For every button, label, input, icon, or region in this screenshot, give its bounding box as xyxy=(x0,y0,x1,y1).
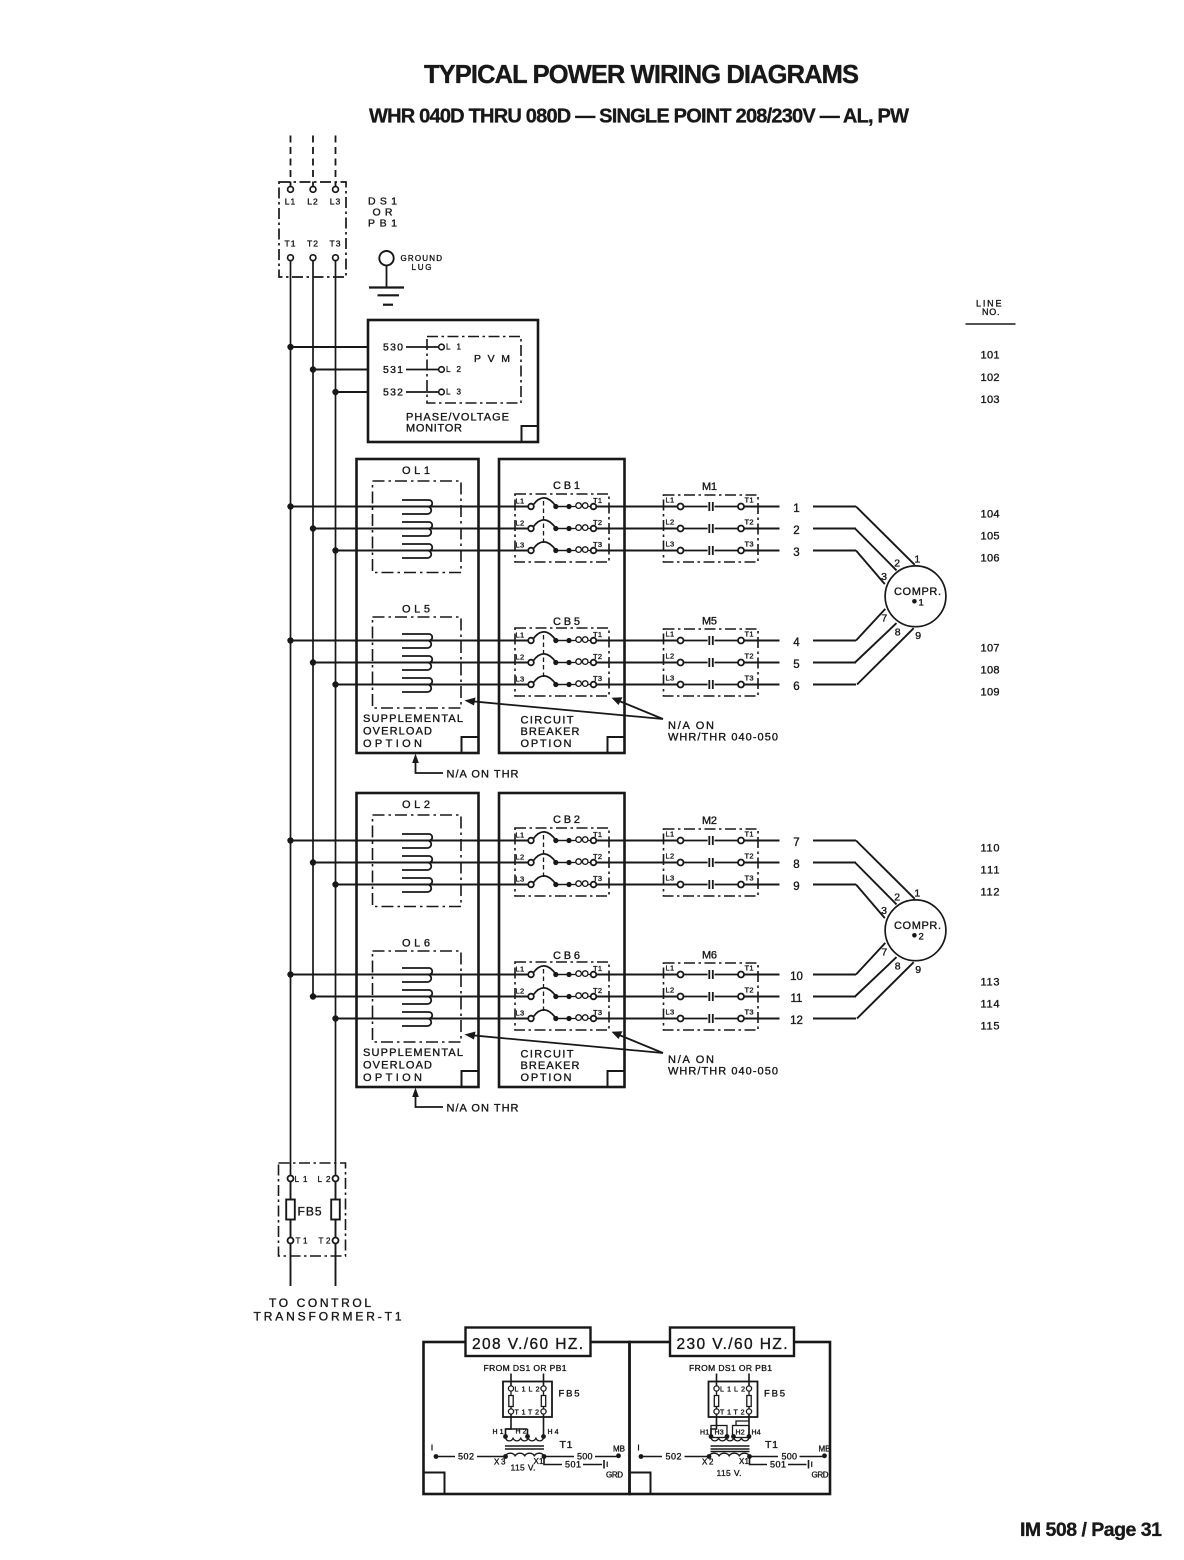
breaker pole terminal T3 xyxy=(591,882,597,888)
wire row 4 to compressor bend xyxy=(813,640,856,642)
svg-text:L3: L3 xyxy=(516,875,525,884)
svg-text:L3: L3 xyxy=(666,674,675,683)
transformer primary terminal dots xyxy=(709,1434,714,1439)
H3 link box xyxy=(711,1426,727,1438)
circuit breaker CB1 box xyxy=(515,494,609,562)
svg-text:T1: T1 xyxy=(745,630,754,639)
contactor pole wire L2 xyxy=(684,996,708,998)
svg-text:9: 9 xyxy=(915,964,921,976)
svg-text:9: 9 xyxy=(915,630,921,642)
svg-text:N/A ON: N/A ON xyxy=(668,1054,714,1066)
svg-text:3: 3 xyxy=(881,905,887,917)
FB5 detail fuse 2 xyxy=(543,1391,545,1395)
wire diagonal 5 to compressor xyxy=(855,623,897,662)
svg-text:L1: L1 xyxy=(295,1175,309,1184)
transformer secondary winding xyxy=(709,1453,750,1456)
svg-text:104: 104 xyxy=(981,509,1000,521)
wire from PB1 to FB5 L2 xyxy=(543,1374,545,1386)
breaker pole contacts and coil L1-T1 xyxy=(553,972,558,977)
overload option notch xyxy=(462,737,479,753)
svg-text:L3: L3 xyxy=(666,540,675,549)
wire from PB1 to FB5 L2 xyxy=(748,1374,750,1386)
svg-text:CB2: CB2 xyxy=(553,814,580,826)
svg-text:T3: T3 xyxy=(745,674,754,683)
wire bus to PVM L3 xyxy=(336,391,369,393)
svg-text:NO.: NO. xyxy=(982,307,1000,317)
wire diagonal 12 to compressor xyxy=(857,962,914,1018)
breaker CB5 trip linkage dashed xyxy=(543,635,545,679)
wire row 3 bus to breaker xyxy=(336,550,529,552)
FB5 detail terminal L1 xyxy=(714,1386,719,1391)
contactor NO contact L2-T2 xyxy=(708,858,710,867)
junction dot row 12 xyxy=(332,1015,338,1021)
contactor pole terminal L2 xyxy=(678,526,684,532)
230V box corner notch xyxy=(630,1473,651,1494)
svg-text:N/A ON: N/A ON xyxy=(668,720,714,732)
breaker contact blade L3 xyxy=(534,876,556,884)
svg-text:TYPICAL POWER WIRING DIAGRAMS: TYPICAL POWER WIRING DIAGRAMS xyxy=(424,61,859,89)
disconnect DS1/PB1 box xyxy=(279,182,346,277)
wire 531 to PVM terminal xyxy=(406,369,439,371)
wire row 11 to compressor bend xyxy=(813,996,856,998)
svg-text:T2: T2 xyxy=(745,652,754,661)
svg-text:OVERLOAD: OVERLOAD xyxy=(363,1060,432,1072)
svg-text:T3: T3 xyxy=(745,874,754,883)
breaker CB2 trip linkage dashed xyxy=(543,835,545,879)
branch 501 to ground (230V) xyxy=(750,1457,768,1465)
contactor pole terminal L3 xyxy=(678,882,684,888)
svg-text:M2: M2 xyxy=(702,815,717,827)
junction dot row 9 xyxy=(332,881,338,887)
PVM terminal L1 xyxy=(439,344,445,350)
svg-text:L1: L1 xyxy=(516,831,525,840)
junction dot row 1 xyxy=(287,503,293,509)
wire T1 into H3 link xyxy=(716,1421,718,1426)
FB5 detail fuse 1 xyxy=(510,1391,512,1395)
wire diagonal 1 to compressor xyxy=(856,507,915,565)
heater element OL2 xyxy=(402,878,432,885)
wire from DS1 to FB5 L1 xyxy=(510,1374,512,1386)
breaker contact blade L3 xyxy=(534,1010,556,1018)
wire row 1 breaker to contactor xyxy=(596,506,677,508)
terminal T1 of DS1 xyxy=(288,255,294,261)
wire row 8 to compressor bend xyxy=(813,862,856,864)
svg-text:L3: L3 xyxy=(666,1008,675,1017)
FB5 detail fuse 1 xyxy=(716,1391,718,1395)
breaker CB6 trip linkage dashed xyxy=(543,969,545,1013)
contactor NO contact L1-T1 xyxy=(708,836,710,845)
terminal L3 of DS1 xyxy=(333,187,339,193)
wire row 7 breaker to contactor xyxy=(596,840,677,842)
svg-text:FB5: FB5 xyxy=(559,1389,580,1400)
FB5 detail terminal L2 xyxy=(541,1386,546,1391)
svg-text:CB1: CB1 xyxy=(553,480,580,492)
contactor pole wire T2 xyxy=(715,528,739,530)
bus L1 vertical wire xyxy=(290,261,292,1176)
wire row 2 bus to breaker xyxy=(313,528,528,530)
svg-text:FROM DS1 OR PB1: FROM DS1 OR PB1 xyxy=(689,1363,772,1373)
svg-text:T1: T1 xyxy=(296,1237,309,1246)
svg-text:532: 532 xyxy=(383,387,403,399)
bus L2 vertical wire xyxy=(312,261,314,997)
svg-text:H1: H1 xyxy=(700,1430,709,1437)
breaker contact blade L1 xyxy=(534,832,556,840)
wire diagonal 10 to compressor xyxy=(856,943,885,975)
contactor pole terminal L1 xyxy=(678,504,684,510)
svg-text:GRD: GRD xyxy=(812,1471,829,1480)
contactor pole terminal T3 xyxy=(738,682,744,688)
secondary circuit left end tick xyxy=(431,1445,433,1451)
circuit breaker CB2 box xyxy=(515,828,609,896)
breaker pole terminal L3 xyxy=(528,882,534,888)
svg-text:T3: T3 xyxy=(593,874,602,883)
circuit breaker CB5 box xyxy=(515,628,609,696)
wire H2 tap xyxy=(527,1429,529,1435)
tab 208 V./60 HZ. xyxy=(466,1328,591,1357)
svg-text:L1: L1 xyxy=(285,197,296,207)
secondary terminal dot X1 xyxy=(747,1454,752,1459)
wire row 6 breaker to contactor xyxy=(596,684,677,686)
svg-text:T2: T2 xyxy=(528,1410,539,1417)
svg-text:IM 508 / Page 31: IM 508 / Page 31 xyxy=(1020,1519,1162,1541)
svg-text:CIRCUIT: CIRCUIT xyxy=(521,1049,574,1061)
contactor NO contact L1-T1 xyxy=(708,502,710,511)
contactor pole wire L3 xyxy=(684,884,708,886)
heater element OL5 xyxy=(402,678,432,685)
svg-text:108: 108 xyxy=(981,665,1000,677)
svg-text:M6: M6 xyxy=(702,950,717,962)
svg-text:T1: T1 xyxy=(593,496,602,505)
contactor pole wire T2 xyxy=(715,862,739,864)
breaker pole terminal T2 xyxy=(591,860,597,866)
svg-text:8: 8 xyxy=(895,626,901,638)
junction dot bus L1 PVM tap xyxy=(287,344,293,350)
wire row 5 bus to breaker xyxy=(313,662,528,664)
wire row 3 contactor to number xyxy=(744,550,780,552)
junction dot row 10 xyxy=(287,971,293,977)
transformer secondary winding xyxy=(506,1453,545,1456)
contactor pole terminal L3 xyxy=(678,548,684,554)
svg-text:L3: L3 xyxy=(330,197,341,207)
phase/voltage monitor box xyxy=(368,320,538,442)
svg-text:L1: L1 xyxy=(666,830,675,839)
breaker pole contacts and coil L3-T3 xyxy=(553,682,558,687)
wire row 9 contactor to number xyxy=(744,884,780,886)
svg-text:115 V.: 115 V. xyxy=(511,1463,536,1473)
contactor pole wire L2 xyxy=(684,662,708,664)
svg-text:530: 530 xyxy=(383,342,403,354)
contactor pole terminal L2 xyxy=(678,994,684,1000)
wire T2 into H2 link xyxy=(736,1421,749,1426)
wire row 5 to compressor bend xyxy=(813,662,856,664)
overload relay OL2 box xyxy=(373,815,462,907)
svg-text:111: 111 xyxy=(981,865,1000,877)
contactor NO contact L1-T1 xyxy=(708,636,710,645)
svg-text:T2: T2 xyxy=(745,852,754,861)
contactor NO contact L2-T2 xyxy=(708,524,710,533)
svg-text:OPTION: OPTION xyxy=(363,738,422,750)
breaker pole contacts and coil L3-T3 xyxy=(553,548,558,553)
svg-text:9: 9 xyxy=(793,881,799,893)
svg-text:106: 106 xyxy=(981,553,1000,565)
compressor #2 circle xyxy=(885,900,946,961)
svg-text:L2: L2 xyxy=(446,365,462,374)
breaker pole terminal T3 xyxy=(591,682,597,688)
contactor NO contact L3-T3 xyxy=(708,680,710,689)
wire T1 to transformer primary xyxy=(506,1414,512,1434)
svg-text:113: 113 xyxy=(981,977,1000,989)
svg-text:T1: T1 xyxy=(745,496,754,505)
svg-text:L2: L2 xyxy=(307,197,318,207)
wire row 12 breaker to contactor xyxy=(596,1018,677,1020)
circuit breaker CB6 box xyxy=(515,962,609,1030)
breaker contact blade L2 xyxy=(534,854,556,862)
terminal L1 of DS1 xyxy=(288,187,294,193)
detail box 208V xyxy=(424,1342,630,1494)
breaker pole terminal L1 xyxy=(528,504,534,510)
PVM terminal L2 xyxy=(439,367,445,373)
breaker pole terminal L2 xyxy=(528,860,534,866)
wire row 10 contactor to number xyxy=(744,974,780,976)
contactor pole wire L2 xyxy=(684,528,708,530)
svg-text:T1: T1 xyxy=(593,964,602,973)
secondary terminal dot X-left xyxy=(707,1454,712,1459)
svg-text:T2: T2 xyxy=(593,652,602,661)
secondary wire left with label 502 xyxy=(434,1454,439,1459)
wire diagonal 3 to compressor xyxy=(856,551,885,585)
svg-text:T1: T1 xyxy=(745,830,754,839)
fuse F1 of FB5 xyxy=(290,1182,292,1200)
svg-text:L1: L1 xyxy=(446,343,462,352)
svg-text:7: 7 xyxy=(881,613,887,625)
svg-text:COMPR.: COMPR. xyxy=(894,586,941,598)
svg-text:12: 12 xyxy=(790,1015,803,1027)
wire row 7 to compressor bend xyxy=(813,840,856,842)
svg-text:FROM DS1 OR PB1: FROM DS1 OR PB1 xyxy=(484,1363,567,1373)
heater element OL1 xyxy=(402,522,432,529)
wire from DS1 to FB5 L1 xyxy=(716,1374,718,1386)
svg-text:T2: T2 xyxy=(593,518,602,527)
svg-text:X1: X1 xyxy=(739,1457,750,1466)
wire row 4 breaker to contactor xyxy=(596,640,677,642)
wire row 1 bus to breaker xyxy=(291,506,529,508)
breaker pole terminal T2 xyxy=(591,526,597,532)
junction dot row 5 xyxy=(310,659,316,665)
wire row 1 to compressor bend xyxy=(813,506,856,508)
breaker option notch xyxy=(608,1071,625,1087)
junction dot row 4 xyxy=(287,637,293,643)
breaker pole terminal T1 xyxy=(591,638,597,644)
svg-text:L1: L1 xyxy=(516,965,525,974)
contactor pole terminal T1 xyxy=(738,638,744,644)
svg-text:501: 501 xyxy=(770,1460,786,1470)
contactor pole terminal L2 xyxy=(678,660,684,666)
breaker pole terminal T1 xyxy=(591,504,597,510)
wire row 2 breaker to contactor xyxy=(596,528,677,530)
contactor pole wire T3 xyxy=(715,884,739,886)
svg-text:OL1: OL1 xyxy=(402,465,430,477)
overload relay OL1 box xyxy=(373,481,462,573)
svg-text:T2: T2 xyxy=(593,852,602,861)
svg-text:T1: T1 xyxy=(745,964,754,973)
svg-text:L2: L2 xyxy=(666,518,675,527)
breaker pole contacts and coil L2-T2 xyxy=(553,860,558,865)
heater element OL1 xyxy=(402,544,432,551)
svg-text:531: 531 xyxy=(383,364,403,376)
wire diagonal 8 to compressor xyxy=(855,863,897,905)
PVM box option notch xyxy=(522,426,539,442)
wire diagonal 11 to compressor xyxy=(855,957,897,996)
contactor pole wire T2 xyxy=(715,996,739,998)
svg-text:L1: L1 xyxy=(666,630,675,639)
svg-text:GROUND: GROUND xyxy=(401,254,443,263)
svg-text:T1: T1 xyxy=(285,239,297,249)
svg-text:T2: T2 xyxy=(734,1410,745,1417)
breaker contact blade L3 xyxy=(534,676,556,684)
contactor pole terminal L1 xyxy=(678,838,684,844)
FB5 detail terminal L1 xyxy=(508,1386,513,1391)
secondary terminal dot X-left xyxy=(503,1454,508,1459)
svg-text:OL2: OL2 xyxy=(402,799,430,811)
svg-text:SUPPLEMENTAL: SUPPLEMENTAL xyxy=(363,713,463,725)
contactor M6 box xyxy=(664,963,759,1030)
breaker pole terminal L2 xyxy=(528,994,534,1000)
wire row 6 bus to breaker xyxy=(336,684,529,686)
svg-text:2: 2 xyxy=(919,932,924,943)
svg-text:N/A ON THR: N/A ON THR xyxy=(447,1103,519,1115)
contactor pole wire T1 xyxy=(715,974,739,976)
svg-text:L3: L3 xyxy=(666,874,675,883)
svg-text:3: 3 xyxy=(881,571,887,583)
breaker pole contacts and coil L2-T2 xyxy=(553,994,558,999)
svg-text:T1: T1 xyxy=(720,1410,731,1417)
terminal T2 of DS1 xyxy=(310,255,316,261)
contactor pole terminal T2 xyxy=(738,526,744,532)
contactor pole wire T3 xyxy=(715,1018,739,1020)
svg-text:M5: M5 xyxy=(702,616,717,628)
contactor NO contact L2-T2 xyxy=(708,992,710,1001)
heater element OL6 xyxy=(402,968,432,975)
contactor NO contact L3-T3 xyxy=(708,880,710,889)
FB5 detail fuse 2 xyxy=(748,1391,750,1395)
breaker option notch xyxy=(608,737,625,753)
contactor NO contact L1-T1 xyxy=(708,970,710,979)
junction dot row 2 xyxy=(310,525,316,531)
svg-text:T3: T3 xyxy=(330,239,342,249)
svg-text:T2: T2 xyxy=(745,986,754,995)
breaker pole contacts and coil L3-T3 xyxy=(553,1016,558,1021)
PVM terminal L3 xyxy=(439,389,445,395)
overload relay OL5 box xyxy=(373,617,462,708)
wire diagonal 7 to compressor xyxy=(856,841,915,899)
line no header underline xyxy=(966,323,1016,325)
svg-text:115 V.: 115 V. xyxy=(717,1468,742,1478)
svg-text:L2: L2 xyxy=(516,987,525,996)
svg-text:501: 501 xyxy=(565,1460,581,1470)
breaker contact blade L2 xyxy=(534,988,556,996)
wire row 6 to compressor bend xyxy=(813,684,856,686)
incoming supply dashed line L2 xyxy=(312,136,314,187)
svg-text:11: 11 xyxy=(791,993,803,1005)
breaker pole contacts and coil L1-T1 xyxy=(553,838,558,843)
breaker pole terminal T1 xyxy=(591,972,597,978)
svg-text:MB: MB xyxy=(613,1445,625,1454)
contactor pole terminal T1 xyxy=(738,972,744,978)
svg-text:L2: L2 xyxy=(318,1175,332,1184)
wire bus to PVM L1 xyxy=(291,346,369,348)
svg-text:101: 101 xyxy=(981,350,1000,362)
junction dot row 6 xyxy=(332,681,338,687)
wire row 8 bus to breaker xyxy=(313,862,528,864)
terminal dot MB xyxy=(616,1453,621,1458)
wire diagonal 4 to compressor xyxy=(856,609,885,641)
contactor pole wire T1 xyxy=(715,506,739,508)
svg-text:COMPR.: COMPR. xyxy=(894,920,941,932)
svg-text:PB1: PB1 xyxy=(368,218,397,230)
wire row 5 breaker to contactor xyxy=(596,662,677,664)
svg-text:4: 4 xyxy=(793,637,800,649)
contactor NO contact L3-T3 xyxy=(708,1014,710,1023)
FB5 terminal L2 xyxy=(333,1176,339,1182)
transformer primary terminal dots xyxy=(503,1434,508,1439)
terminal dot MB (230V) xyxy=(822,1453,827,1458)
secondary circuit left end tick (230V) xyxy=(638,1445,640,1451)
svg-text:230 V./60 HZ.: 230 V./60 HZ. xyxy=(677,1336,788,1353)
contactor pole wire T3 xyxy=(715,684,739,686)
svg-text:CB5: CB5 xyxy=(553,616,580,628)
breaker pole terminal L3 xyxy=(528,1016,534,1022)
svg-text:102: 102 xyxy=(981,372,1000,384)
breaker pole terminal L1 xyxy=(528,972,534,978)
svg-text:112: 112 xyxy=(981,887,1000,899)
svg-text:L3: L3 xyxy=(516,1009,525,1018)
transformer core xyxy=(711,1445,750,1447)
terminal T3 of DS1 xyxy=(333,255,339,261)
junction dot row 11 xyxy=(310,993,316,999)
breaker pole terminal L3 xyxy=(528,548,534,554)
wire 530 to PVM terminal xyxy=(406,346,439,348)
wire T2 to transformer primary H4 xyxy=(748,1414,750,1434)
junction dot bus L2 PVM tap xyxy=(310,366,316,372)
breaker CB1 trip linkage dashed xyxy=(543,501,545,545)
wire row 8 breaker to contactor xyxy=(596,862,677,864)
svg-text:MONITOR: MONITOR xyxy=(406,423,462,435)
svg-text:X3: X3 xyxy=(494,1458,506,1467)
heater element OL6 xyxy=(402,1012,432,1019)
fuse F2 of FB5 xyxy=(335,1182,337,1200)
wire T2 to transformer primary H4 xyxy=(543,1414,545,1434)
contactor pole wire L3 xyxy=(684,1018,708,1020)
svg-text:BREAKER: BREAKER xyxy=(521,726,580,738)
breaker pole contacts and coil L2-T2 xyxy=(553,526,558,531)
wire row 11 bus to breaker xyxy=(313,996,528,998)
contactor pole wire T1 xyxy=(715,640,739,642)
svg-text:105: 105 xyxy=(981,531,1000,543)
svg-text:T2: T2 xyxy=(593,986,602,995)
svg-text:T2: T2 xyxy=(307,239,319,249)
circuit breaker option box (CB1/CB5) xyxy=(499,459,625,753)
wire row 1 contactor to number xyxy=(744,506,780,508)
wire diagonal 2 to compressor xyxy=(855,529,897,571)
svg-text:L2: L2 xyxy=(516,653,525,662)
contactor pole wire L2 xyxy=(684,862,708,864)
svg-text:L1: L1 xyxy=(720,1387,731,1394)
breaker pole contacts and coil L1-T1 xyxy=(553,504,558,509)
wire row 11 breaker to contactor xyxy=(596,996,677,998)
contactor pole terminal T3 xyxy=(738,882,744,888)
wire row 11 contactor to number xyxy=(744,996,780,998)
breaker pole terminal L2 xyxy=(528,660,534,666)
